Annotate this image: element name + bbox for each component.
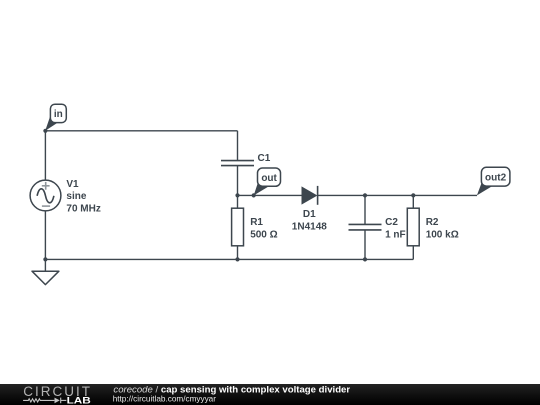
svg-text:in: in [54, 109, 63, 120]
svg-text:out: out [261, 173, 277, 184]
svg-text:R2: R2 [426, 217, 439, 228]
svg-text:D1: D1 [303, 209, 316, 220]
svg-text:out2: out2 [485, 172, 507, 183]
svg-text:70 MHz: 70 MHz [66, 203, 100, 214]
svg-text:C1: C1 [258, 153, 271, 164]
svg-text:R1: R1 [250, 217, 263, 228]
svg-text:http://circuitlab.com/cmyyyar: http://circuitlab.com/cmyyyar [113, 395, 217, 404]
svg-text:LAB: LAB [67, 395, 92, 405]
svg-text:V1: V1 [66, 179, 79, 190]
svg-text:1 nF: 1 nF [385, 229, 406, 240]
svg-text:500 Ω: 500 Ω [250, 229, 277, 240]
svg-text:100 kΩ: 100 kΩ [426, 229, 459, 240]
svg-text:sine: sine [66, 191, 86, 202]
svg-text:1N4148: 1N4148 [292, 222, 327, 233]
svg-text:C2: C2 [385, 217, 398, 228]
